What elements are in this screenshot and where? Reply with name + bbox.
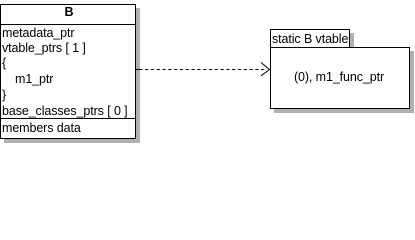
- title B: [1, 4, 137, 24]
- wire: first long dash: [136, 69, 143, 71]
- class box B: [0, 4, 136, 139]
- row {: [2, 56, 6, 70]
- row vtable_ptrs [ 1 ]: [2, 41, 86, 55]
- row base_classes_ptrs [ 0 ]: [2, 104, 128, 118]
- separator under title: [0, 24, 136, 25]
- body label (0), m1_func_ptr: [270, 70, 408, 84]
- row }: [2, 88, 6, 102]
- vtable package body: [270, 47, 410, 109]
- vtable package tab: [270, 29, 350, 48]
- row m1_ptr: [15, 72, 53, 86]
- row members data: [2, 121, 81, 135]
- separator above members data: [0, 118, 136, 119]
- dashed arrow from B to vtable: [0, 0, 415, 145]
- wire: dashed line: [145, 69, 264, 71]
- arrowhead (open): [261, 63, 270, 76]
- tab label static B vtable: [272, 32, 348, 46]
- row metadata_ptr: [2, 26, 74, 40]
